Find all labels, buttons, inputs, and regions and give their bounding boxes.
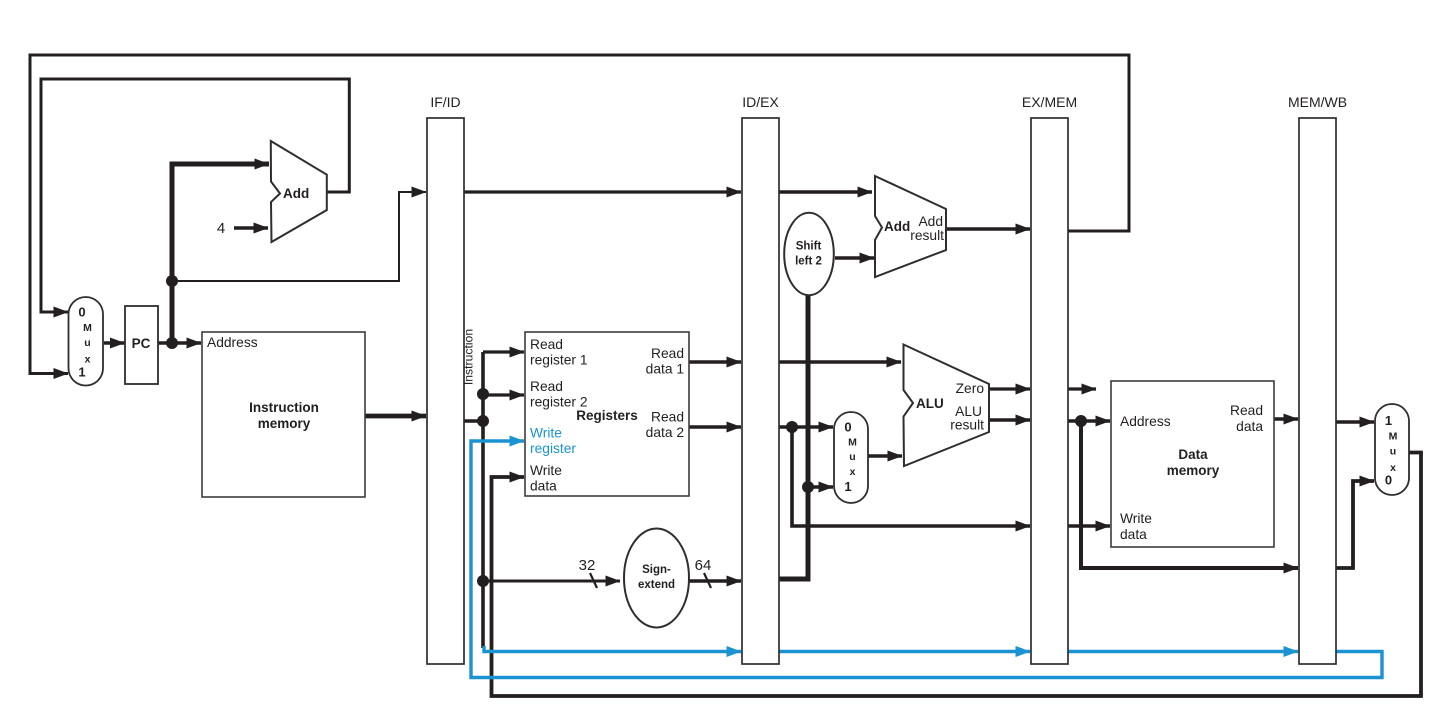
- svg-text:Add: Add: [283, 186, 309, 201]
- wire: instruction to Read register 2: [483, 393, 524, 396]
- ALU: [904, 345, 990, 467]
- node: instruction bus junction: [477, 415, 489, 427]
- wire: instruction memory output to IF/ID: [365, 414, 426, 419]
- svg-text:Write: Write: [530, 426, 562, 441]
- wire: ALU mux output to ALU bottom input: [868, 454, 902, 457]
- svg-text:Address: Address: [207, 335, 258, 350]
- label: bus width 32 slash: [590, 573, 597, 588]
- wire: PC to instruction memory Address: [158, 341, 201, 344]
- svg-text:Instruction: Instruction: [462, 329, 476, 385]
- wire: write register number ID/EX to EX/MEM (blue): [779, 650, 1030, 653]
- wire: branch Add result to EX/MEM: [946, 227, 1030, 230]
- svg-text:Add: Add: [918, 214, 943, 229]
- wire: data memory Read data to MEM/WB: [1274, 417, 1298, 420]
- node: immediate junction: [802, 481, 814, 493]
- svg-text:Read: Read: [651, 346, 684, 361]
- wire: write register number into ID/EX (blue): [484, 646, 741, 652]
- wire: ALU result bypass down to MEM/WB: [1081, 421, 1298, 568]
- svg-text:Read: Read: [530, 379, 563, 394]
- svg-text:Write: Write: [1120, 511, 1152, 526]
- wire: ALU result EX/MEM to data memory Address: [1068, 419, 1110, 422]
- svg-text:memory: memory: [1167, 463, 1220, 478]
- wire: Read data 1 to ID/EX: [689, 360, 741, 363]
- svg-text:PC: PC: [132, 336, 151, 351]
- svg-text:x: x: [850, 466, 856, 478]
- wire: ID/EX read data 1 to ALU top input: [779, 360, 901, 363]
- svg-text:1: 1: [78, 365, 85, 380]
- wire: Read data 2 to ID/EX: [689, 425, 741, 428]
- svg-text:data: data: [530, 479, 557, 494]
- svg-text:Write: Write: [530, 463, 562, 478]
- instruction memory: [202, 332, 365, 497]
- svg-text:Zero: Zero: [956, 381, 985, 396]
- svg-text:result: result: [910, 228, 944, 243]
- svg-text:Read: Read: [1230, 403, 1263, 418]
- svg-text:data: data: [1236, 419, 1263, 434]
- svg-text:1: 1: [844, 479, 851, 494]
- wire: PC+4 from Add to PC mux input 0: [41, 79, 349, 312]
- svg-text:Add: Add: [884, 219, 910, 234]
- svg-text:0: 0: [1385, 473, 1392, 488]
- svg-text:EX/MEM: EX/MEM: [1022, 94, 1077, 110]
- mux M3 (write-back mux): [1375, 404, 1409, 495]
- wire: Zero stub out of EX/MEM: [1068, 387, 1096, 390]
- wire: immediate to ALU mux input 1: [808, 485, 833, 488]
- svg-text:M: M: [848, 437, 857, 449]
- wire: immediate field to Sign-extend: [483, 580, 620, 583]
- svg-text:result: result: [950, 418, 984, 433]
- wire: MEM/WB read data to WB mux input 1: [1336, 420, 1374, 423]
- wire: ALU result to EX/MEM: [989, 418, 1030, 421]
- wire: PC mux output to PC: [104, 341, 125, 344]
- wire: PC value tap to IF/ID input: [172, 192, 426, 281]
- svg-text:data: data: [1120, 527, 1147, 542]
- wire: write register number return loop to Write register (blue): [471, 441, 1382, 678]
- svg-text:Address: Address: [1120, 414, 1171, 429]
- svg-text:memory: memory: [258, 416, 311, 431]
- svg-text:MEM/WB: MEM/WB: [1288, 94, 1347, 110]
- wire: write register number EX/MEM to MEM/WB (blue): [1068, 650, 1298, 653]
- pipeline register MEM/WB: [1299, 118, 1336, 664]
- svg-text:ID/EX: ID/EX: [742, 94, 779, 110]
- svg-text:register: register: [530, 441, 576, 456]
- svg-text:Data: Data: [1178, 447, 1208, 462]
- register PC: [125, 306, 158, 384]
- node: PC output junction: [166, 337, 178, 349]
- node: ALU result junction: [1075, 415, 1087, 427]
- wire: MEM/WB ALU result to WB mux input 0: [1336, 481, 1374, 568]
- svg-text:data 1: data 1: [646, 362, 684, 377]
- node: read data 2 junction: [786, 421, 798, 433]
- svg-text:Instruction: Instruction: [249, 400, 319, 415]
- label: bus width 64 slash: [704, 573, 711, 588]
- wire: PC value up to Add top input: [172, 164, 269, 345]
- wire: sign-extended immediate from ID/EX up to Shift left 2: [779, 294, 808, 579]
- wire: PC value ID/EX to branch Add top input: [779, 190, 872, 193]
- data memory: [1111, 381, 1274, 547]
- adder Add (branch target): [875, 176, 946, 277]
- svg-text:M: M: [83, 322, 92, 334]
- svg-text:Read: Read: [651, 410, 684, 425]
- shift left 2 unit: [784, 213, 834, 295]
- wire: PC value IF/ID to ID/EX: [464, 190, 741, 193]
- sign-extend unit: [624, 529, 689, 628]
- svg-text:0: 0: [78, 305, 85, 320]
- wire: EX/MEM to data memory Write data: [1068, 524, 1110, 528]
- svg-text:register 1: register 1: [530, 353, 588, 368]
- wire: instruction bus out of IF/ID: [464, 419, 483, 423]
- wire: Shift left 2 output to branch Add bottom input: [835, 256, 874, 259]
- svg-text:4: 4: [217, 220, 225, 237]
- wire: branch PCSrc loop from EX/MEM to PC mux input 1: [30, 55, 1129, 374]
- svg-text:extend: extend: [638, 579, 675, 591]
- wire: read data 2 down to EX/MEM write data: [792, 427, 1030, 526]
- svg-text:0: 0: [844, 420, 851, 435]
- svg-text:IF/ID: IF/ID: [430, 94, 460, 110]
- wire: instruction vertical distribution bus: [481, 352, 485, 648]
- svg-text:Shift: Shift: [796, 241, 822, 253]
- pipeline register ID/EX: [742, 118, 779, 664]
- svg-text:u: u: [84, 337, 90, 349]
- wire: ALU Zero output to EX/MEM: [989, 387, 1030, 390]
- svg-text:Sign-: Sign-: [642, 564, 671, 576]
- svg-text:M: M: [1389, 431, 1398, 443]
- wire: instruction to Read register 1: [483, 350, 524, 353]
- node: read register 2 junction: [477, 388, 489, 400]
- svg-text:u: u: [849, 451, 855, 463]
- svg-text:Read: Read: [530, 337, 563, 352]
- mux M1 (PC source mux): [69, 297, 104, 386]
- svg-text:64: 64: [695, 557, 712, 574]
- wire: constant 4 to Add bottom input: [234, 226, 268, 229]
- pipeline register EX/MEM: [1031, 118, 1068, 664]
- node: junction on PC vertical: [166, 275, 178, 287]
- node: sign-extend junction: [477, 575, 489, 587]
- registers file: [525, 332, 689, 496]
- wire: write-back data loop to Registers Write data: [492, 453, 1422, 697]
- svg-text:1: 1: [1385, 413, 1392, 428]
- svg-text:left 2: left 2: [795, 256, 822, 268]
- svg-text:u: u: [1390, 446, 1396, 458]
- svg-text:Registers: Registers: [576, 408, 638, 423]
- wire: ID/EX read data 2 to ALU mux input 0: [779, 425, 833, 428]
- wire: Sign-extend output to ID/EX: [689, 579, 741, 582]
- mux M2 (ALU operand mux): [834, 412, 868, 503]
- svg-text:ALU: ALU: [916, 396, 944, 411]
- adder Add (PC increment): [271, 141, 327, 242]
- pipeline register IF/ID: [427, 118, 464, 664]
- svg-text:data 2: data 2: [646, 425, 684, 440]
- svg-text:32: 32: [579, 557, 596, 574]
